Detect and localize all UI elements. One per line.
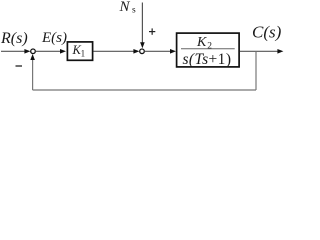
svg-text:1: 1 xyxy=(81,48,86,58)
fraction bar xyxy=(181,48,235,50)
minus sign at S1 xyxy=(16,65,23,67)
wire K1 to summing junction S2 xyxy=(94,50,135,52)
arrowhead Ns into S2 xyxy=(140,42,145,48)
arrowhead into plant block xyxy=(170,49,176,54)
svg-text:K: K xyxy=(196,35,207,50)
plus sign at S2 xyxy=(149,31,155,33)
svg-text:s: s xyxy=(132,6,136,16)
wire S2 to plant block xyxy=(144,50,171,52)
arrowhead feedback into S1 xyxy=(30,54,35,60)
wire R(s) input xyxy=(1,50,26,52)
svg-text:C(s): C(s) xyxy=(252,23,282,42)
arrowhead into K1 xyxy=(60,49,66,54)
svg-text:2: 2 xyxy=(207,41,212,51)
summing junction S2 xyxy=(140,49,145,54)
wire Ns into S2 xyxy=(141,3,143,45)
wire feedback left vertical into S1 xyxy=(32,58,34,91)
wire feedback bottom xyxy=(33,89,256,91)
arrowhead into summing junction S1 xyxy=(24,49,30,54)
svg-text:s(Ts+1): s(Ts+1) xyxy=(183,51,232,68)
svg-text:N: N xyxy=(119,0,131,15)
wire S1 to K1 xyxy=(35,50,61,52)
svg-text:R(s): R(s) xyxy=(0,30,28,47)
wire feedback takeoff vertical xyxy=(255,51,257,90)
block K1 xyxy=(67,42,92,60)
summing junction S1 xyxy=(31,49,36,54)
svg-text:E(s): E(s) xyxy=(41,30,67,46)
arrowhead into S2 xyxy=(133,49,139,54)
block G: K2 / s(Ts+1) xyxy=(177,33,240,67)
arrowhead output xyxy=(277,49,283,54)
wire output C(s) xyxy=(240,50,279,52)
